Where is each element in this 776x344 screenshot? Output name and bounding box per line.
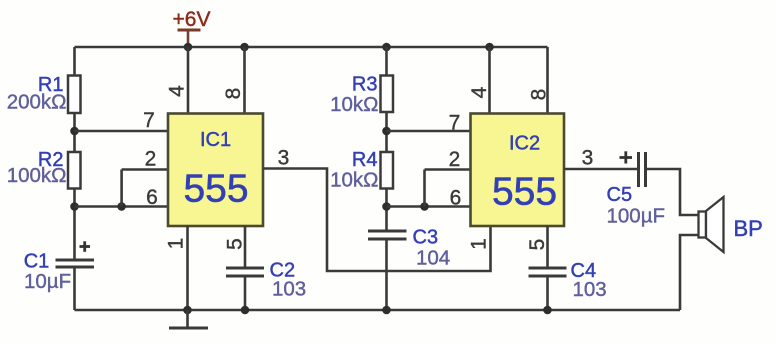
svg-text:10kΩ: 10kΩ <box>330 169 378 192</box>
wire R4 bottom to C3 <box>385 189 388 232</box>
svg-text:BP: BP <box>734 216 763 241</box>
node R2-C1-pin6 junction <box>70 202 79 211</box>
node R3 top on rail <box>382 43 391 52</box>
svg-text:100µF: 100µF <box>607 205 666 228</box>
wire rail to R3 top <box>385 47 388 76</box>
node IC1 pin1 / ground on rail <box>183 306 192 315</box>
capacitor C3 plates <box>368 231 407 239</box>
wire C2 bottom to rail <box>244 276 247 310</box>
wire left rail top segment <box>73 47 76 76</box>
resistor R4 <box>381 152 394 189</box>
wire R1 bottom to R2 top <box>73 113 76 152</box>
wire IC1 pin 1 <box>186 226 189 310</box>
wire R3 bottom to R4 top <box>385 112 388 152</box>
svg-text:555: 555 <box>492 171 557 214</box>
node pin2 branch junction IC2 <box>420 202 429 211</box>
node C3 on rail <box>382 306 391 315</box>
resistor R3 <box>381 76 394 113</box>
svg-text:IC1: IC1 <box>200 129 231 151</box>
node R4-C3-pin6 junction <box>382 202 391 211</box>
wire IC2 pin 6 <box>387 205 471 208</box>
svg-text:4: 4 <box>468 86 491 98</box>
svg-text:7: 7 <box>449 112 461 135</box>
capacitor C5 plates <box>639 152 646 187</box>
wire IC2 pin 7 <box>387 130 471 133</box>
svg-text:4: 4 <box>166 85 189 97</box>
svg-text:200kΩ: 200kΩ <box>7 91 67 114</box>
wire C5 to speaker top <box>647 169 699 215</box>
node +6V / IC1 pin4 on rail <box>184 43 193 52</box>
svg-text:C5: C5 <box>607 184 633 206</box>
node IC2 pin4 on rail <box>485 43 494 52</box>
wire C3 bottom to rail <box>385 239 388 310</box>
speaker BP driver <box>699 212 707 238</box>
svg-text:10kΩ: 10kΩ <box>330 93 378 116</box>
wire top +6V rail <box>75 46 548 49</box>
wire C1 bottom to bottom rail <box>73 267 76 310</box>
capacitor C1 plates <box>56 260 95 267</box>
svg-text:100kΩ: 100kΩ <box>7 164 67 187</box>
wire IC2 pin 2 <box>425 168 471 171</box>
capacitor C4 plates <box>529 268 567 276</box>
svg-text:1: 1 <box>468 238 491 250</box>
svg-text:3: 3 <box>582 147 594 170</box>
wire IC1 pin 4 <box>187 47 190 114</box>
ground stem <box>186 310 189 328</box>
wire IC1 pin 2 <box>122 168 168 171</box>
svg-text:+6V: +6V <box>173 8 211 31</box>
wire IC1 pin 8 <box>243 47 246 114</box>
svg-text:6: 6 <box>450 187 462 210</box>
node R1-R2-pin7 junction <box>70 127 79 136</box>
op IC1 555 body <box>168 114 263 227</box>
wire speaker bottom to rail <box>680 235 699 310</box>
wire IC1 pin 5 to C2 <box>244 226 247 268</box>
resistor R2 <box>68 152 81 189</box>
resistor R1 <box>68 76 81 114</box>
wire pin2 branch vertical IC2 <box>423 170 426 207</box>
ground bar <box>169 327 208 330</box>
power +6V bar <box>178 29 201 32</box>
node R3-R4-pin7 junction <box>382 127 391 136</box>
node C2 on rail <box>241 306 250 315</box>
svg-text:104: 104 <box>416 247 450 270</box>
node pin2 branch junction <box>117 202 126 211</box>
svg-text:2: 2 <box>449 148 461 171</box>
svg-text:103: 103 <box>573 278 607 301</box>
capacitor C2 plates <box>226 268 264 276</box>
svg-text:5: 5 <box>526 239 549 251</box>
svg-text:8: 8 <box>222 88 245 100</box>
wire IC2 pin 4 <box>488 47 491 114</box>
wire IC2 pin 3 to C5 <box>564 168 637 171</box>
svg-text:5: 5 <box>224 238 247 250</box>
svg-text:IC2: IC2 <box>509 133 540 155</box>
svg-text:6: 6 <box>146 186 158 209</box>
svg-text:3: 3 <box>278 147 290 170</box>
power +6V stem <box>187 31 190 47</box>
wire IC2 pin 8 <box>546 47 549 114</box>
node IC1 pin8 on rail <box>240 43 249 52</box>
op IC2 555 body <box>471 114 565 227</box>
wire IC1 pin 3 output <box>263 169 491 272</box>
wire R2 bottom to C1 top plate <box>73 189 76 261</box>
node C4 on rail <box>543 306 552 315</box>
wire pin2 branch vertical <box>120 170 123 207</box>
svg-text:555: 555 <box>183 168 248 211</box>
svg-text:8: 8 <box>528 89 551 101</box>
wire IC1 pin 6 <box>75 205 169 208</box>
svg-text:2: 2 <box>145 148 157 171</box>
polarity + of C1 <box>80 241 91 252</box>
polarity + of C5 <box>620 151 633 163</box>
speaker BP horn <box>706 197 724 252</box>
svg-text:7: 7 <box>143 109 155 132</box>
svg-text:103: 103 <box>272 278 306 301</box>
wire bottom rail <box>75 309 681 312</box>
wire C4 bottom to rail <box>546 276 549 310</box>
svg-text:10µF: 10µF <box>24 270 71 293</box>
svg-text:1: 1 <box>165 238 188 250</box>
wire IC2 pin 5 to C4 <box>546 226 549 268</box>
svg-text:C3: C3 <box>413 227 439 249</box>
wire IC1 pin 7 <box>75 130 169 133</box>
